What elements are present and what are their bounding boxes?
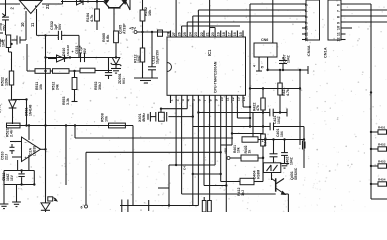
bus wire 4 pin25 [186,22,188,31]
dot [87,1,89,3]
resistor R508 10k [109,123,126,128]
capacitor on pin10 wire [12,39,18,41]
main rail y57.5 [46,57,117,59]
loop sides [3,171,5,205]
wire corner x75 rail y138 [74,126,76,139]
svg-text:5: 5 [192,99,196,101]
bus wire 2 pin23 [197,10,199,31]
left spine vertical x45.5 [45,35,47,197]
zener diode ZD501 [115,56,117,58]
svg-text:11: 11 [30,22,35,27]
resistor stub R451 [370,131,372,133]
CN6 pin 4 wire [258,57,260,71]
CN6 pin 5 wire [267,57,269,70]
svg-text:24: 24 [189,32,193,36]
svg-text:47k: 47k [256,105,260,111]
resistor R552 30kJ [80,68,95,73]
connector CN4A [306,0,320,40]
svg-text:+5V: +5V [224,147,228,154]
svg-text:9: 9 [337,22,341,24]
svg-text:104: 104 [280,131,284,137]
resistor R104 4.7k [96,0,98,9]
svg-text:R451: R451 [378,126,386,130]
svg-text:10: 10 [20,22,25,27]
svg-text:8: 8 [337,16,341,18]
crystal X401 circuit [186,103,188,109]
svg-text:HS8M: HS8M [257,169,261,179]
capacitor C402 104Z [281,152,288,154]
svg-text:18: 18 [222,32,226,36]
bus wire 1 from right spine [250,3,302,5]
svg-text:6: 6 [81,206,83,210]
svg-text:1N4148: 1N4148 [29,104,33,116]
svg-text:+: + [72,50,74,54]
sensor box [48,197,53,201]
svg-text:1: 1 [170,99,174,101]
wires below op-amp to loop rails [17,160,19,171]
svg-text:21: 21 [45,4,50,9]
wire pin6 to bottom rail [197,103,199,206]
wire rail y174 [193,173,221,175]
svg-text:11: 11 [226,97,230,101]
wire short y188 [158,187,169,189]
wire pin11 to bottom edge [225,103,227,212]
scan noise [125,31,126,32]
svg-text:R454: R454 [378,178,386,182]
wire op-amp output [42,3,63,5]
svg-text:23: 23 [194,32,198,36]
wire x304 drop [303,127,305,169]
wire rail y88.5 [250,88,300,90]
loop rail y184.5 [4,184,34,186]
wire pin3 to Q401 base [181,103,183,194]
svg-text:IC1: IC1 [207,49,212,56]
wire pin8 to bottom box [209,103,211,201]
resistor R442 [261,134,266,146]
svg-text:11: 11 [337,32,341,36]
capacitor C111 10uF/35V [151,32,153,67]
svg-text:104Z: 104Z [290,157,294,165]
svg-text:+: + [262,140,264,144]
wire pin7 row y185.5 [203,103,205,186]
bus stub pin26 [181,26,183,31]
capacitor C441 vertical to D404 [273,140,275,154]
transistor Q105 [108,7,121,9]
resistor R402 1k [241,155,258,161]
wire from C532 to rail [62,34,79,36]
svg-text:LM339: LM339 [33,146,37,156]
IC1 top pin stubs and numbers 28-15 [170,31,172,38]
svg-text:2: 2 [175,99,179,101]
svg-text:8: 8 [209,99,213,101]
svg-text:28: 28 [166,32,170,36]
wire pin10 long drop [220,103,222,182]
resistor stub R454 [370,183,372,185]
comparator rail y125.5 [7,125,134,127]
svg-text:4.7k: 4.7k [286,89,290,96]
svg-text:7: 7 [305,10,309,12]
op-amp IC2A LM339 [22,137,41,162]
svg-text:9: 9 [305,22,309,24]
svg-text:6.8k: 6.8k [106,34,110,42]
svg-text:7: 7 [203,99,207,101]
resistor stub R452 [370,148,372,150]
svg-text:−: − [25,141,27,145]
wire pin 10 [25,11,27,40]
svg-text:1N4148: 1N4148 [66,45,70,56]
wire pin 27 to top edge [175,0,177,31]
resistor R112 104Z [142,32,144,48]
component box on +5V wire [158,30,163,36]
svg-text:2.4k: 2.4k [10,129,14,137]
bottom edge connector boxes [202,201,206,213]
svg-text:7: 7 [337,10,341,12]
rail y126.5 with capacitor C401 104 [193,126,250,128]
svg-text:50V: 50V [58,23,62,30]
svg-text:CN6: CN6 [261,38,268,42]
resistor R421 4.7k [279,70,281,83]
LED D511 [45,197,47,203]
row y71 with R511 [26,44,28,71]
svg-text:10: 10 [305,26,309,30]
stub under pin7 [203,197,205,201]
wire bottom rail y205.5 [120,205,198,207]
svg-text:19: 19 [217,32,221,36]
wire pin2 drop [175,103,177,165]
svg-text:26: 26 [178,32,182,36]
ground under ZD501 [115,65,117,69]
resistor R102 10k [142,0,144,10]
svg-text:5: 5 [261,66,265,68]
svg-text:3: 3 [181,99,185,101]
svg-text:10k: 10k [105,115,109,122]
wire row y35.4 to C532 [37,34,59,36]
wire rail y152.3 [86,151,221,153]
svg-text:14: 14 [242,97,246,101]
wire pin 21 to top edge [209,0,211,31]
svg-text:16V: 16V [10,174,14,181]
svg-text:15: 15 [239,32,243,36]
svg-text:10: 10 [337,26,341,30]
svg-text:22J: 22J [5,154,9,160]
svg-text:3.3k: 3.3k [66,98,70,105]
resistor R522 120k [11,52,13,71]
svg-text:104Z: 104Z [137,54,141,63]
svg-text:104Z: 104Z [277,116,281,124]
wire input to op-amp IC2B [0,3,20,5]
svg-text:5: 5 [305,4,309,6]
svg-text:R453: R453 [378,160,386,164]
resistor R005 6.8k [114,31,119,43]
svg-text:+: + [25,156,27,160]
svg-text:SB520C: SB520C [294,167,298,180]
capacitor C552 [108,58,110,73]
svg-text:30kJ: 30kJ [98,82,102,90]
capacitor C542 [0,32,3,34]
connector CN6 [254,43,277,57]
crystal X401 symbol [166,112,168,122]
capacitor C531 4.7uF 50V (series on rail) [80,53,82,62]
wire diode top to x26 drop [13,99,27,101]
wire to LED D511 [45,149,47,197]
resistor stub R453 [370,165,372,167]
ground bottom left [0,203,8,205]
svg-text:17: 17 [228,32,232,36]
svg-text:10: 10 [220,97,224,101]
svg-text:10k: 10k [148,9,152,16]
wire x169 drop from y165 [168,165,170,206]
CN1A pin stubs and numbers [341,3,346,5]
svg-text:6: 6 [337,4,341,6]
bus wire 3 pin24 [192,16,194,31]
svg-text:CN4A: CN4A [306,45,311,56]
wire into op-amp IC2A [28,126,30,141]
svg-text:CN1A: CN1A [323,47,328,58]
diode D517 vertical [9,100,17,108]
wire x66 drop [65,126,67,186]
ground rail under C111 [134,77,158,79]
capacitor C510 22J on input [10,141,22,143]
svg-text:8: 8 [305,16,309,18]
resistor R553 3.3k [74,71,76,78]
IC1 bottom pin stubs and numbers 1-14 [170,95,172,103]
op-amp IC2B (pointing down) [20,1,43,14]
svg-text:D541: D541 [0,105,2,113]
wire pin13 corner [236,103,238,118]
wire pin14 corner [242,103,244,107]
svg-text:9: 9 [214,99,218,101]
diode block D404 HS8M [263,163,280,173]
wire emitter up [129,0,131,10]
svg-text:22: 22 [200,32,204,36]
wire [62,0,64,4]
svg-text:24k: 24k [55,84,59,90]
joint pins 20-21 [210,27,216,29]
svg-text:104Z: 104Z [287,55,291,63]
second ground [16,185,18,203]
resistor R521 2.4k [7,123,21,128]
svg-text:120k: 120k [5,77,9,86]
wire x133 drop [132,126,134,206]
resistor R401 10k row [242,137,258,142]
capacitor C532 1uF 50V [57,31,59,40]
svg-text:12: 12 [305,37,309,41]
loop rail y170.5 [4,170,34,172]
CN1A wires to right edge [346,3,372,5]
op-amp output wire to LED spine [41,148,46,150]
svg-text:10k: 10k [39,84,43,90]
svg-text:4.7k: 4.7k [90,14,94,22]
capacitor C457 104Z [282,57,284,59]
svg-text:50V: 50V [83,47,87,54]
svg-text:6: 6 [198,99,202,101]
diode at top edge (clipped) [77,0,84,5]
svg-text:+5V: +5V [129,26,136,31]
svg-text:10µF/35V: 10µF/35V [156,49,160,64]
resistor R422 47k [262,89,264,99]
wire x86 drop to terminal 6 [85,152,87,205]
wire pin9 [214,103,216,165]
wire rail y112.5 with capacitor C421 [198,112,269,114]
electrolytic capacitor C544 100u 25V [5,0,7,16]
svg-text:4: 4 [186,99,190,101]
IC1 CPU TMP47C400AN body [167,37,246,95]
resistor R511 10k [35,69,50,74]
wire rail y70 to terminator [268,69,308,71]
diode D510 1N4148 [57,55,65,62]
capacitor C512 between rails [21,171,23,174]
svg-text:CPU-TM47C200AN: CPU-TM47C200AN [214,61,218,93]
wire to CN6 from top [272,0,274,43]
wire vertical x300 with cap end [299,70,301,145]
transistor Q401 SB520C [271,173,273,181]
resistor R412 1kJ row [240,178,254,184]
wire pin5 long drop [192,103,194,206]
svg-text:16: 16 [233,32,237,36]
wire pin 11 [36,9,38,35]
svg-text:9V1: 9V1 [122,78,126,84]
svg-text:10k: 10k [236,147,240,153]
wire pin12 to R442 [231,103,233,145]
tick [148,200,150,211]
resistor R512 24k [53,69,70,74]
svg-text:1k: 1k [248,150,252,154]
svg-text:R442: R442 [264,137,268,146]
wire right column [370,4,372,199]
svg-text:20: 20 [211,32,215,36]
svg-text:21: 21 [205,32,209,36]
connector pins to bottom edge [121,200,123,213]
CN4A pin stubs and numbers [302,3,306,5]
wire x26 drop to comparator rail [26,100,28,126]
wire top rail [61,1,104,3]
svg-text:R452: R452 [378,143,386,147]
svg-text:13: 13 [237,97,241,101]
svg-text:12: 12 [337,37,341,41]
connector CN1A [328,0,341,40]
